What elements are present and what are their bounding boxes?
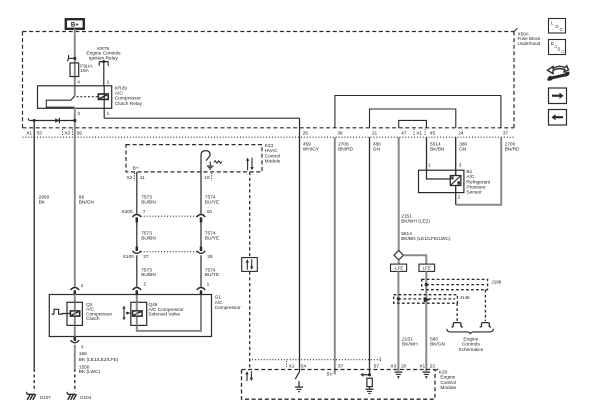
svg-text:38: 38 [337,130,343,136]
svg-text:7: 7 [143,209,146,215]
svg-text:BU/BN: BU/BN [141,272,156,278]
svg-text:J198: J198 [491,279,501,284]
svg-text:K20: K20 [439,369,448,375]
svg-text:S: S [557,47,560,52]
svg-text:BK/GN: BK/GN [430,341,445,347]
svg-text:G1: G1 [215,295,222,301]
svg-text:Engine: Engine [463,336,478,342]
svg-text:1: 1 [207,281,210,287]
svg-text:BK (LWC): BK (LWC) [79,369,101,375]
svg-text:X1: X1 [419,363,425,369]
svg-text:HVAC: HVAC [265,148,279,154]
svg-text:Schematics: Schematics [458,347,483,353]
svg-text:Module: Module [265,159,281,165]
svg-text:BU/YE: BU/YE [205,272,219,278]
svg-text:G104: G104 [80,395,92,400]
svg-text:GN: GN [459,146,467,152]
svg-text:47: 47 [401,130,407,136]
svg-text:X200: X200 [121,209,133,215]
svg-text:Underhood: Underhood [518,41,541,46]
svg-text:Pressure: Pressure [466,185,486,191]
svg-text:10: 10 [204,175,210,181]
svg-text:1: 1 [428,162,431,168]
svg-text:20: 20 [401,363,407,369]
svg-text:BU/BN: BU/BN [141,235,156,241]
svg-text:Sensor: Sensor [466,190,482,196]
svg-text:A/C: A/C [115,91,124,97]
svg-text:Ignition Relay: Ignition Relay [89,56,119,62]
svg-text:1: 1 [107,111,110,117]
svg-text:C: C [560,27,563,32]
svg-text:B+: B+ [133,165,139,171]
svg-text:X1: X1 [416,130,422,136]
svg-text:27: 27 [143,254,149,260]
svg-text:-LFE: -LFE [394,266,404,271]
svg-text:A/C: A/C [215,300,224,306]
svg-text:X3: X3 [390,363,396,369]
svg-text:23: 23 [430,363,436,369]
svg-text:K33: K33 [265,143,274,149]
svg-text:Solenoid Valve: Solenoid Valve [148,312,180,318]
svg-text:Module: Module [440,385,456,391]
svg-text:BK/WH (LE2): BK/WH (LE2) [401,218,430,224]
svg-text:Control: Control [440,380,455,386]
svg-text:BN/RD: BN/RD [505,146,520,152]
svg-text:J148: J148 [460,295,470,300]
svg-text:2: 2 [81,283,84,289]
svg-text:Engine: Engine [440,375,455,381]
svg-text:4: 4 [77,79,80,85]
svg-text:BU/BN: BU/BN [141,200,156,206]
svg-text:BK/BN: BK/BN [430,146,445,152]
svg-text:Clutch: Clutch [86,316,100,322]
svg-text:3: 3 [77,111,80,117]
svg-text:BN/GN: BN/GN [79,200,95,206]
svg-text:158: 158 [79,351,87,357]
svg-text:2: 2 [458,195,461,201]
svg-text:X2: X2 [127,175,133,181]
svg-text:37: 37 [503,130,509,136]
svg-text:LFE: LFE [423,266,431,271]
svg-text:15A: 15A [80,68,89,74]
svg-text:10: 10 [207,209,213,215]
svg-text:WH/GY: WH/GY [303,146,320,152]
svg-text:C: C [561,49,564,54]
svg-text:X100: X100 [123,254,135,260]
svg-text:X1: X1 [289,363,295,369]
svg-text:45: 45 [430,130,436,136]
svg-text:BU/YE: BU/YE [205,200,219,206]
svg-text:1: 1 [81,344,84,350]
svg-text:25: 25 [303,130,309,136]
svg-text:BK/WH: BK/WH [402,341,418,347]
svg-text:3: 3 [459,162,462,168]
svg-text:Refrigerant: Refrigerant [466,179,490,185]
svg-text:24: 24 [458,130,464,136]
svg-text:59: 59 [77,130,83,136]
svg-text:G107: G107 [40,395,52,400]
svg-text:11: 11 [140,175,145,181]
svg-text:53: 53 [37,130,43,136]
svg-text:A/C: A/C [466,174,475,180]
svg-text:21: 21 [372,130,378,136]
svg-text:O: O [555,24,559,29]
svg-text:BU/YE: BU/YE [205,235,219,241]
svg-text:BK/BN (LE1/LFE/LWC): BK/BN (LE1/LFE/LWC) [401,236,451,242]
svg-text:BK (LE1/LE2/LFE): BK (LE1/LE2/LFE) [79,357,119,363]
svg-text:BN/RD: BN/RD [338,146,353,152]
svg-text:2: 2 [143,281,146,287]
svg-text:KR29: KR29 [115,85,127,91]
svg-text:54: 54 [301,363,307,369]
svg-text:B1: B1 [466,169,472,175]
svg-text:37: 37 [338,363,344,369]
svg-text:Compressor: Compressor [215,305,242,311]
svg-text:B+: B+ [71,23,79,29]
svg-text:BK: BK [39,200,46,206]
svg-text:2: 2 [107,79,110,85]
svg-text:GN: GN [373,146,381,152]
svg-text:X1: X1 [26,130,32,136]
svg-text:X3: X3 [64,130,70,136]
svg-text:57: 57 [374,363,380,369]
svg-text:Controls: Controls [462,342,480,348]
svg-text:Control: Control [265,153,280,159]
svg-text:Compressor: Compressor [115,96,142,102]
svg-text:5V: 5V [327,371,334,377]
svg-text:Clutch Relay: Clutch Relay [115,101,143,107]
svg-text:28: 28 [207,254,213,260]
